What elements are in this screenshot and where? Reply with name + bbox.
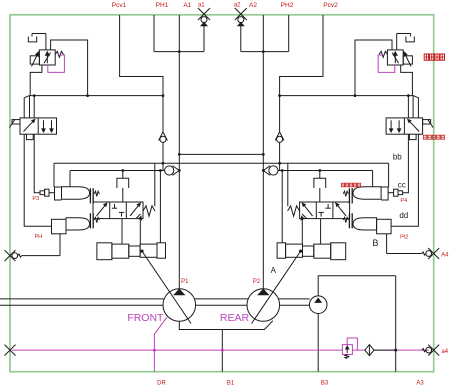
- wires bus to valve V2: [412, 96, 414, 118]
- pump P2 (REAR): [247, 289, 280, 322]
- svg-text:DR: DR: [157, 381, 166, 387]
- coupler P3 plug (right): [398, 191, 403, 195]
- svg-text:A3: A3: [416, 381, 424, 387]
- proportional relief valve U1 body: [39, 50, 55, 65]
- wires main valve 2 to servo piston: [320, 219, 322, 245]
- wire main line A2-P2: [262, 15, 264, 289]
- port a1 plug symbol: [198, 8, 210, 20]
- wire Pcv2 line: [280, 15, 323, 132]
- pilot actuator 1 (right): [353, 187, 381, 199]
- solenoid of U2: [403, 56, 412, 64]
- junction DR line/bus: [221, 349, 224, 352]
- svg-text:B1: B1: [227, 381, 235, 387]
- directional valve V2 body: [386, 118, 423, 134]
- port a2 plug symbol: [235, 8, 247, 20]
- pilot actuator 1 (left): [62, 187, 90, 199]
- tank symbol at U1: [31, 34, 33, 37]
- wire port to PH chamber (left): [22, 255, 60, 257]
- proportional relief valve U2 body: [387, 50, 403, 65]
- wire y170 down to actuator (left): [69, 171, 71, 187]
- pilot gear pump P3: [317, 276, 319, 372]
- PH chamber box (left): [52, 219, 67, 234]
- pilot actuator 2 (left): [66, 218, 90, 230]
- wire regulator bus (left): [30, 95, 164, 97]
- wire pilot bus left (PH1-a1): [154, 51, 204, 53]
- spring of U1: [55, 51, 63, 57]
- drain tank under V2: [409, 134, 416, 139]
- svg-text:a4: a4: [441, 349, 448, 355]
- feedback lever P2: [252, 251, 301, 323]
- svg-text:PH: PH: [34, 234, 42, 240]
- servo piston cylinder (right): [331, 243, 346, 260]
- junction main line P1 at check: [178, 169, 181, 172]
- PH chamber box (right): [377, 219, 392, 234]
- wire PH1 line down: [153, 15, 155, 52]
- wire bus H1 between main lines: [179, 153, 263, 155]
- pilot actuator 2 (right): [353, 218, 377, 230]
- wire Pcv1 line: [120, 15, 163, 132]
- solenoid of U1: [30, 56, 39, 64]
- main regulator valve 1 body: [93, 202, 143, 219]
- arrows inside main valve 1: [97, 205, 106, 216]
- port Pt3 plug symbol (left border, bus): [5, 345, 16, 356]
- svg-text:B: B: [372, 238, 378, 248]
- arrows inside main valve 2: [337, 205, 346, 216]
- wire long pilot bus H2: [54, 162, 389, 164]
- actuator 1 spring (left): [94, 191, 99, 196]
- pump P1 (FRONT): [163, 289, 196, 322]
- feedback pivot (left): [140, 250, 143, 253]
- wire V2 port to P3 coupler: [403, 134, 408, 193]
- svg-text:B3: B3: [321, 381, 329, 387]
- port A4 plug symbol (right border): [422, 252, 426, 255]
- wire V2 port to PH chamber: [391, 134, 418, 226]
- svg-text:cc: cc: [398, 180, 406, 189]
- wire tank to U1 inlet: [32, 33, 46, 35]
- arrow inside U2: [394, 54, 396, 64]
- arrow inside U1: [46, 54, 48, 64]
- main valve 1 spring: [143, 206, 155, 216]
- actuator 2 spring (left): [94, 217, 99, 222]
- check valve CV2b (into main line P2): [269, 166, 278, 175]
- wire suction line lower: [0, 304, 310, 306]
- svg-text:A2: A2: [249, 2, 257, 9]
- wire pilot to servo piston (left): [159, 171, 161, 243]
- coupler bracket (left): [55, 187, 62, 200]
- wire case drain bracket: [179, 321, 273, 330]
- junction delivery/bus: [394, 349, 397, 352]
- svg-text:P4: P4: [400, 198, 407, 204]
- drain tank under V1: [27, 134, 34, 139]
- junction pilot branch (right): [318, 169, 321, 172]
- check valve CV2a (vertical, Pcv2 branch): [280, 132, 284, 141]
- actuator 2 spring (right): [343, 217, 348, 222]
- pilot feedback line U1 (magenta): [48, 55, 65, 72]
- svg-text:Pcv2: Pcv2: [323, 2, 338, 9]
- wires main valve 1 to servo piston: [121, 219, 123, 245]
- wire y170 down to actuator (right): [372, 171, 374, 187]
- pilot orifice jog to main valve 2 top: [319, 171, 321, 179]
- wire PH2 chamber to port A4 (line B): [386, 234, 388, 254]
- wire pilot pressure bus (magenta): [12, 349, 429, 351]
- wire check CV2a to shuttle node: [279, 142, 281, 170]
- pilot relief valve RV1: [342, 345, 352, 355]
- svg-text:a1: a1: [198, 3, 205, 9]
- wire drain to DR: [221, 330, 223, 372]
- wire U1 output to regulator bus: [30, 65, 42, 96]
- wire suction line upper: [0, 298, 310, 300]
- red note at V2 (CJK): [424, 135, 427, 139]
- actuator 1 push rods (left): [89, 188, 91, 203]
- tank symbol at U2: [410, 34, 412, 37]
- junction main line P2 at check: [262, 169, 265, 172]
- wires bus to valve V1: [29, 96, 31, 118]
- pilot feedback line U2 (magenta): [378, 55, 395, 72]
- wire pilot to spring cap (left): [154, 163, 156, 206]
- wire port a2 down to pilot bus: [240, 26, 242, 52]
- pilot pump delivery box: [318, 275, 396, 277]
- pilot solenoid stub of V2: [423, 120, 431, 124]
- check valve CV1a (vertical, Pcv1 branch): [159, 132, 163, 141]
- directional valve V1 body: [20, 118, 57, 134]
- pilot filter F1: [365, 345, 374, 356]
- wire H2 end down to coupler bracket (right): [388, 163, 390, 187]
- main regulator valve 2 body: [300, 202, 350, 219]
- coupler P3 plug (left): [40, 191, 45, 195]
- wire V1 port to PH chamber: [24, 134, 51, 226]
- check valve under port a1: [201, 23, 207, 26]
- svg-text:FRONT: FRONT: [127, 312, 164, 324]
- svg-text:bb: bb: [393, 152, 402, 161]
- pilot solenoid stub of V1: [12, 120, 20, 124]
- wire pilot bus right (a2-PH2): [241, 51, 289, 53]
- servo piston cylinder (left): [97, 243, 112, 260]
- port Pt1 plug symbol (left border): [5, 250, 16, 261]
- wire tank to U2 inlet: [397, 33, 411, 35]
- actuator 2 push rods (right): [351, 213, 353, 228]
- check valve CV1b (into main line P1): [165, 166, 174, 175]
- wire pilot to spring cap (right): [287, 163, 289, 206]
- spring of U2: [379, 51, 387, 57]
- svg-text:P2: P2: [253, 279, 261, 285]
- wire V1 port to P3 coupler: [34, 134, 39, 193]
- wire check CV1a to shuttle node: [162, 142, 164, 170]
- wire PH2 line down: [288, 15, 290, 52]
- wire port a1 down to pilot bus: [203, 26, 205, 52]
- svg-text:A: A: [271, 266, 277, 275]
- svg-text:P3: P3: [32, 196, 39, 202]
- svg-text:A4: A4: [441, 253, 449, 259]
- junction A1/pilot bus: [178, 50, 181, 53]
- wire FRONT pump drain (magenta): [154, 317, 166, 371]
- junction pilot branch (left): [121, 169, 124, 172]
- main valve 2 spring: [288, 206, 300, 216]
- red note at right actuator (CJK): [342, 183, 345, 187]
- actuator 1 spring (right): [343, 191, 348, 196]
- svg-text:Pt2: Pt2: [400, 234, 408, 240]
- arrows inside V1: [24, 121, 34, 132]
- wire pilot to servo piston (right): [281, 171, 283, 243]
- wire check feed line y170 (right): [278, 170, 372, 172]
- svg-text:Pcv1: Pcv1: [112, 2, 127, 9]
- svg-text:PH1: PH1: [156, 2, 169, 9]
- svg-text:P1: P1: [181, 279, 189, 285]
- svg-text:dd: dd: [399, 211, 408, 220]
- junction A2/pilot bus: [262, 50, 265, 53]
- svg-text:A1: A1: [183, 2, 191, 9]
- actuator 2 push rods (left): [89, 213, 91, 228]
- wire bus black segment filter-junction: [374, 349, 396, 351]
- red note at U2 (CJK): [424, 54, 428, 60]
- feedback pivot (right): [299, 250, 302, 253]
- svg-text:a2: a2: [234, 3, 241, 9]
- wire check feed line y170 (left): [70, 170, 164, 172]
- wire U2 output to regulator bus: [401, 65, 413, 96]
- wire main line A1-P1: [178, 15, 180, 289]
- actuator 1 push rods (right): [351, 188, 353, 203]
- arrows inside V2: [409, 121, 419, 132]
- pilot orifice jog to main valve 1 top: [122, 171, 124, 179]
- wire regulator bus (right): [280, 95, 414, 97]
- wire H2 end down to coupler bracket (left): [53, 163, 55, 187]
- wire U2 top link: [355, 40, 392, 96]
- check valve under port a2: [238, 23, 244, 26]
- coupler bracket (right): [381, 187, 388, 200]
- wire U1 top link: [51, 40, 88, 96]
- junction drain/bus: [153, 349, 156, 352]
- port a4 plug symbol (right border): [422, 349, 426, 352]
- feedback lever P1: [142, 251, 191, 323]
- svg-text:PH2: PH2: [281, 2, 294, 9]
- svg-text:REAR: REAR: [220, 312, 250, 324]
